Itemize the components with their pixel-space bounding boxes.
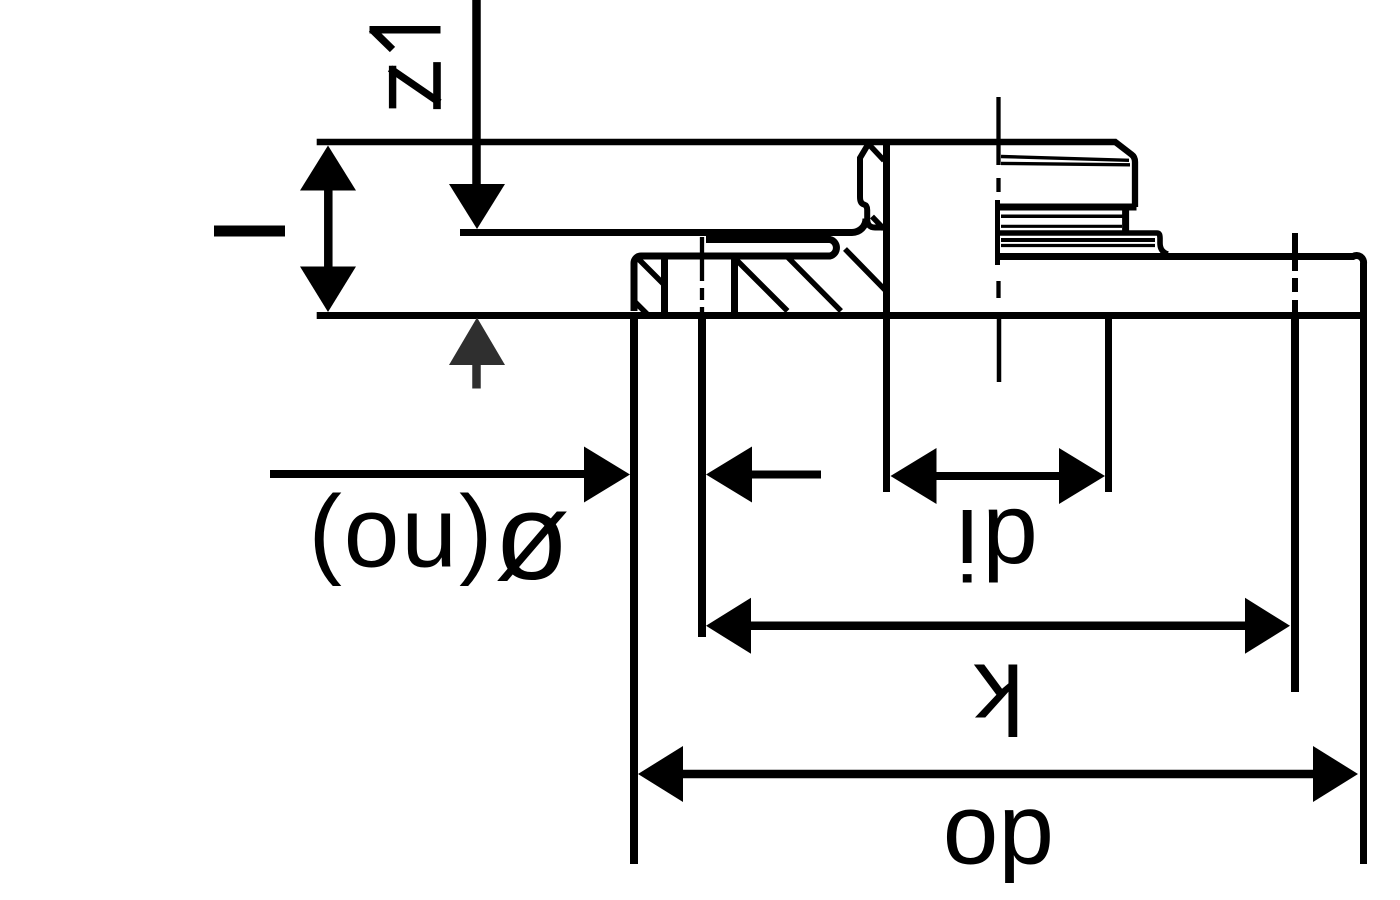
- svg-text:ø(no): ø(no): [307, 487, 570, 624]
- svg-text:do: do: [943, 789, 1054, 900]
- svg-text:k: k: [973, 643, 1024, 755]
- svg-text:di: di: [952, 488, 1038, 600]
